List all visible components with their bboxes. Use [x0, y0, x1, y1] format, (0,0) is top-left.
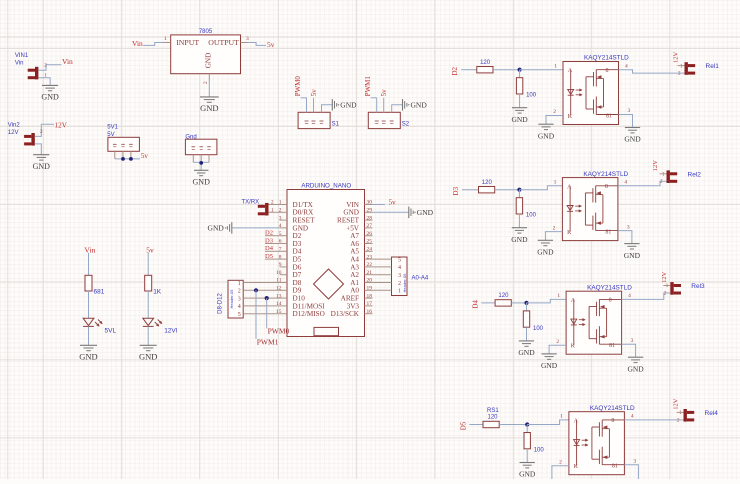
- svg-text:A: A: [574, 418, 579, 424]
- svg-text:81: 81: [612, 464, 618, 470]
- svg-text:D3: D3: [293, 240, 302, 248]
- svg-text:D10: D10: [293, 295, 306, 303]
- svg-text:A: A: [567, 184, 572, 190]
- junction at D9: [254, 288, 258, 292]
- wire 5v to S1 pin2: [313, 98, 315, 113]
- svg-text:120: 120: [480, 60, 491, 66]
- svg-text:3: 3: [633, 458, 636, 464]
- wire opto pin4 to relay connector Rel1: [619, 70, 685, 73]
- svg-text:12V: 12V: [673, 52, 680, 64]
- svg-text:2: 2: [664, 291, 667, 296]
- resistor 100 of block 4: [524, 425, 544, 454]
- svg-text:D6: D6: [293, 263, 302, 271]
- ground at opto pin3 block 1: [624, 128, 641, 144]
- svg-text:GND: GND: [519, 470, 536, 479]
- wire 5v to resistor 1K: [147, 253, 149, 275]
- svg-text:Header-05: Header-05: [402, 273, 407, 293]
- svg-text:Vin: Vin: [132, 39, 143, 48]
- junction block 3: [524, 301, 528, 305]
- servo header S2: [368, 112, 410, 128]
- svg-text:4: 4: [398, 265, 401, 271]
- svg-text:100: 100: [534, 448, 545, 454]
- svg-text:5: 5: [398, 257, 401, 263]
- svg-text:A7: A7: [350, 232, 359, 240]
- wire D9 to PWM1: [255, 290, 257, 339]
- net label D2 input of block 1: [451, 66, 459, 75]
- svg-text:8: 8: [611, 418, 614, 424]
- net label PWM0: [268, 326, 290, 335]
- wire S2 pin3 to ground: [392, 105, 402, 113]
- wire D5 to resistor 120: [469, 424, 483, 426]
- svg-text:1: 1: [398, 289, 401, 295]
- svg-text:5v: 5v: [146, 245, 154, 254]
- svg-text:120: 120: [482, 180, 493, 186]
- net label PWM0 at S1: [294, 76, 302, 97]
- svg-text:25: 25: [367, 239, 373, 245]
- net label Vin: [62, 57, 73, 66]
- header Gnd: [185, 134, 217, 154]
- wire opto pin4 to relay connector Rel4: [624, 419, 683, 421]
- net label 5v at S1: [310, 89, 318, 97]
- svg-text:Rel2: Rel2: [688, 171, 702, 178]
- svg-text:27: 27: [367, 223, 373, 229]
- junction on 5V1 pin2: [121, 157, 125, 161]
- ground S2: [403, 99, 428, 111]
- net label D3 at nano: [265, 237, 280, 244]
- svg-text:Vin: Vin: [84, 245, 95, 254]
- ground at opto pin3 block 2: [624, 244, 641, 260]
- svg-text:5: 5: [238, 312, 241, 318]
- wire Vin to 7805 input: [143, 43, 163, 46]
- svg-text:D13/SCK: D13/SCK: [331, 310, 360, 318]
- svg-text:Rel1: Rel1: [706, 63, 720, 70]
- svg-text:A5: A5: [350, 248, 359, 256]
- wire junction to opto pin1 block 2: [519, 186, 562, 190]
- svg-text:A2: A2: [350, 271, 359, 279]
- pin 2 of 7805: [203, 74, 210, 84]
- LED 12Vl: [143, 318, 178, 334]
- svg-text:81: 81: [605, 229, 611, 235]
- svg-text:PWM1: PWM1: [257, 337, 279, 346]
- wire 5V1 pins to 5v: [115, 158, 140, 160]
- wire opto pin4 to relay connector Rel3: [622, 293, 671, 299]
- net label PWM1: [257, 337, 279, 346]
- svg-text:K: K: [571, 344, 576, 350]
- svg-text:17: 17: [367, 301, 373, 307]
- svg-text:D1/TX: D1/TX: [293, 201, 314, 209]
- ground at opto pin2 block 1: [538, 124, 555, 140]
- svg-text:GND: GND: [627, 364, 644, 373]
- resistor 100 of block 2: [516, 190, 536, 219]
- svg-text:4: 4: [631, 414, 634, 420]
- pins of Gnd header: [193, 155, 209, 163]
- svg-text:5VL: 5VL: [105, 328, 117, 335]
- svg-text:2: 2: [553, 225, 556, 231]
- svg-text:RESET: RESET: [337, 217, 360, 225]
- svg-text:AREF: AREF: [341, 295, 359, 303]
- svg-text:GND: GND: [624, 251, 641, 260]
- svg-text:Gnd: Gnd: [185, 134, 196, 140]
- junction block 2: [517, 188, 521, 192]
- svg-text:GND: GND: [205, 53, 213, 69]
- wire S1 pin3 to ground: [322, 105, 332, 113]
- svg-text:VIN: VIN: [346, 201, 360, 209]
- wire resistor 120 to junction block 1: [493, 69, 520, 71]
- ground at opto pin3 block 3: [627, 357, 644, 373]
- regulator U 7805: [171, 29, 241, 73]
- svg-text:OUTPUT: OUTPUT: [208, 38, 239, 47]
- wire opto pin4 to relay connector Rel2: [618, 181, 667, 186]
- resistor 100 of block 1: [516, 70, 536, 99]
- svg-text:5v: 5v: [310, 89, 318, 97]
- resistor 681: [85, 275, 105, 295]
- svg-text:K: K: [574, 464, 579, 470]
- svg-text:D9: D9: [293, 287, 302, 295]
- svg-text:1: 1: [238, 281, 241, 287]
- svg-text:Rel3: Rel3: [691, 283, 705, 290]
- svg-text:3V3: 3V3: [347, 302, 360, 310]
- svg-text:21: 21: [367, 270, 373, 276]
- wire D10 to PWM0: [266, 298, 268, 328]
- svg-text:A: A: [568, 68, 573, 74]
- net label D4 at nano: [265, 245, 280, 252]
- svg-text:D8-D12: D8-D12: [218, 293, 224, 314]
- LED 5VL: [83, 318, 116, 334]
- svg-text:PWM0: PWM0: [268, 326, 290, 335]
- svg-text:1: 1: [662, 173, 665, 178]
- wire junction to opto pin1 block 4: [527, 420, 569, 425]
- svg-text:D4: D4: [293, 248, 302, 256]
- svg-text:5v: 5v: [389, 199, 397, 207]
- resistor 100 of block 3: [523, 303, 543, 332]
- svg-text:INPUT: INPUT: [176, 38, 199, 47]
- svg-text:ARDUINO_NANO: ARDUINO_NANO: [301, 182, 351, 189]
- wire opto pin3 to ground block 1: [619, 108, 633, 127]
- svg-text:GND: GND: [208, 224, 225, 233]
- servo header S1: [298, 112, 340, 128]
- svg-text:5v: 5v: [380, 89, 388, 97]
- svg-text:2: 2: [203, 81, 209, 84]
- wire PWM0 to S1 pin1: [301, 98, 307, 113]
- svg-text:16: 16: [367, 309, 373, 315]
- net label 5v at S2: [380, 89, 388, 97]
- ground 7805: [200, 97, 219, 113]
- svg-text:K: K: [568, 114, 573, 120]
- svg-text:A3: A3: [350, 263, 359, 271]
- svg-text:2: 2: [40, 130, 43, 135]
- ground right of nano: [409, 207, 434, 219]
- svg-text:23: 23: [367, 254, 373, 260]
- net label D2 at nano: [265, 230, 280, 237]
- net label Vin at LED chain 5VL: [84, 245, 95, 254]
- pin numbers Rel2: [660, 173, 667, 185]
- svg-text:12V: 12V: [672, 398, 679, 410]
- wire VIN1 pin1 to ground: [38, 74, 50, 86]
- svg-text:4: 4: [625, 63, 628, 69]
- resistor 120 of block 3: [495, 293, 511, 306]
- junction on 5V1 pin3: [129, 157, 133, 161]
- wire resistor 100 to ground block 2: [518, 214, 520, 228]
- svg-text:D2: D2: [293, 232, 302, 240]
- wire opto pin2 to ground block 1: [546, 109, 563, 124]
- svg-text:GND: GND: [511, 115, 528, 124]
- svg-text:1: 1: [279, 200, 282, 206]
- svg-text:10: 10: [276, 270, 282, 276]
- pin numbers Rel4: [677, 411, 684, 423]
- svg-text:GND: GND: [541, 361, 558, 370]
- svg-text:PWM0: PWM0: [294, 76, 302, 97]
- svg-text:1: 1: [164, 36, 167, 42]
- svg-text:19: 19: [367, 286, 373, 292]
- svg-text:1: 1: [679, 411, 682, 416]
- wire 7805 gnd pin down: [208, 81, 210, 97]
- pins of 5V1: [115, 151, 131, 159]
- svg-text:24: 24: [367, 247, 373, 253]
- resistor 120 of block 1: [477, 60, 493, 73]
- wire opto pin2 to ground block 4: [552, 459, 569, 479]
- svg-text:1: 1: [680, 64, 683, 69]
- pin 1 number block 3: [557, 293, 560, 299]
- wire opto pin2 to ground block 2: [545, 225, 562, 240]
- svg-text:1: 1: [557, 293, 560, 299]
- svg-text:8: 8: [605, 184, 608, 190]
- wire LED 5VL to ground: [88, 326, 90, 345]
- wire resistor 100 to ground block 4: [526, 449, 528, 463]
- connector Rel2: [667, 170, 702, 183]
- connector TX/RX: [242, 200, 269, 216]
- ground VIN1: [41, 85, 59, 101]
- junction block 4: [525, 422, 529, 426]
- wire resistor 100 to ground block 3: [526, 327, 528, 341]
- svg-text:1: 1: [666, 284, 669, 289]
- svg-text:2: 2: [677, 418, 680, 423]
- net label D5 at nano: [265, 253, 280, 260]
- net label 12V at Rel1: [673, 52, 680, 64]
- wire resistor to LED 12Vl: [147, 291, 149, 318]
- connector Rel4: [684, 409, 719, 422]
- svg-text:GND: GND: [139, 352, 157, 362]
- wire Gnd header pins joined: [193, 162, 209, 170]
- svg-text:12V: 12V: [661, 271, 668, 283]
- svg-text:5V: 5V: [107, 132, 114, 138]
- svg-text:GND: GND: [538, 131, 555, 140]
- pin 4 number block 1: [625, 63, 628, 69]
- svg-text:120: 120: [498, 293, 509, 299]
- svg-text:GND: GND: [79, 352, 97, 362]
- svg-text:GND: GND: [343, 209, 359, 217]
- optocoupler U KAQY214STLD block 2: [562, 171, 628, 241]
- connector VIN1: [15, 53, 39, 79]
- svg-text:2: 2: [44, 63, 47, 68]
- junction Gnd header: [199, 161, 203, 165]
- ic U ARDUINO_NANO: [287, 182, 365, 336]
- svg-text:7805: 7805: [199, 29, 213, 35]
- wire Vin2 pin2 to 12V label: [35, 124, 54, 136]
- wire Vin2 pin1 to ground: [35, 144, 42, 155]
- wire Vin to resistor 681: [88, 253, 90, 275]
- ground LED 5VL: [79, 345, 97, 361]
- svg-text:TX/RX: TX/RX: [242, 200, 260, 206]
- svg-text:3: 3: [627, 224, 630, 230]
- wire D4 to resistor 120: [481, 302, 495, 304]
- svg-text:KAQY214STLD: KAQY214STLD: [587, 284, 632, 291]
- svg-text:5v: 5v: [267, 40, 275, 49]
- svg-text:2: 2: [556, 339, 559, 345]
- svg-text:2: 2: [238, 289, 241, 295]
- svg-text:2: 2: [398, 281, 401, 287]
- optocoupler U KAQY214STLD block 4: [569, 405, 635, 475]
- svg-text:2: 2: [279, 208, 282, 214]
- wire opto pin3 to ground block 3: [622, 338, 636, 357]
- header 5V1: [107, 125, 139, 152]
- net label 5v at nano VIN: [373, 199, 397, 207]
- svg-text:28: 28: [367, 215, 373, 221]
- wire resistor 120 to junction block 4: [499, 424, 527, 426]
- pin 1 of 7805: [163, 36, 171, 43]
- svg-text:Rel4: Rel4: [705, 410, 719, 417]
- wire 5v to S2 pin2: [383, 98, 385, 113]
- svg-text:GND: GND: [624, 135, 641, 144]
- svg-text:A4: A4: [350, 256, 359, 264]
- svg-text:GND: GND: [293, 224, 309, 232]
- svg-text:GND: GND: [200, 103, 218, 113]
- connector Rel3: [670, 282, 705, 295]
- wire VIN1 pin2 to Vin label: [38, 63, 61, 70]
- pin numbers Rel3: [663, 284, 670, 296]
- svg-text:K: K: [567, 230, 572, 236]
- svg-text:GND: GND: [41, 93, 59, 102]
- svg-text:D2: D2: [451, 66, 459, 75]
- svg-text:81: 81: [609, 343, 615, 349]
- junction block 1: [518, 68, 522, 72]
- svg-text:18: 18: [367, 293, 373, 299]
- wires A0-A4 to nano: [373, 259, 392, 290]
- pin numbers Rel1: [678, 64, 685, 76]
- ground S1: [332, 99, 357, 111]
- svg-text:Header-05: Header-05: [229, 289, 234, 309]
- svg-text:KAQY214STLD: KAQY214STLD: [584, 55, 629, 62]
- svg-text:GND: GND: [193, 178, 211, 187]
- svg-text:3: 3: [631, 338, 634, 344]
- wire junction to opto pin1 block 3: [527, 299, 567, 303]
- svg-text:Vin2: Vin2: [8, 123, 21, 129]
- wire opto pin3 to ground block 2: [618, 224, 632, 243]
- wire resistor to LED 5VL: [88, 291, 90, 318]
- svg-text:GND: GND: [33, 162, 51, 171]
- pin 4 number block 3: [628, 293, 631, 299]
- svg-text:KAQY214STLD: KAQY214STLD: [583, 171, 628, 178]
- svg-text:100: 100: [526, 93, 537, 99]
- svg-text:A6: A6: [350, 240, 359, 248]
- net label 12V: [55, 121, 68, 129]
- svg-text:D5: D5: [459, 421, 467, 430]
- svg-text:GND: GND: [417, 208, 434, 217]
- pin 3 of 7805: [241, 36, 250, 43]
- net label 5v at LED chain 12Vl: [146, 245, 154, 254]
- svg-text:3: 3: [279, 215, 282, 221]
- resistor RS1 120: [483, 408, 499, 427]
- svg-text:PWM1: PWM1: [364, 76, 372, 97]
- pins right of ARDUINO_NANO: [365, 200, 373, 315]
- svg-text:S1: S1: [332, 121, 340, 127]
- wire opto pin3 to ground block 4: [624, 458, 638, 479]
- svg-text:12V: 12V: [55, 121, 68, 129]
- svg-text:2: 2: [678, 72, 681, 77]
- svg-text:9: 9: [279, 262, 282, 268]
- svg-text:22: 22: [367, 262, 373, 268]
- wire D3 to resistor 120: [462, 189, 479, 191]
- svg-text:12V: 12V: [8, 130, 19, 136]
- wire resistor 120 to junction block 3: [511, 302, 526, 304]
- svg-text:1: 1: [560, 414, 563, 420]
- connector D8-D12: [218, 280, 244, 318]
- svg-text:GND: GND: [518, 348, 535, 357]
- svg-text:3: 3: [628, 108, 631, 114]
- svg-text:GND: GND: [340, 100, 357, 109]
- svg-text:GND: GND: [511, 235, 528, 244]
- resistor 1K: [145, 275, 162, 295]
- pin 4 number block 2: [624, 180, 627, 186]
- junction at D10: [265, 296, 269, 300]
- wire resistor 100 to ground block 1: [519, 94, 521, 108]
- svg-text:26: 26: [367, 231, 373, 237]
- svg-text:D0/RX: D0/RX: [293, 209, 315, 217]
- wire resistor 120 to junction block 2: [495, 189, 520, 191]
- pins left of ARDUINO_NANO: [269, 200, 288, 315]
- net label D4 input of block 3: [471, 300, 479, 309]
- svg-text:81: 81: [606, 113, 612, 119]
- ground of Gnd header: [193, 170, 211, 186]
- ground under resistor 100 block 1: [511, 108, 528, 124]
- svg-text:D4: D4: [471, 300, 479, 309]
- svg-text:A0: A0: [350, 287, 359, 295]
- net label 12V at Rel2: [652, 160, 659, 172]
- svg-text:8: 8: [609, 298, 612, 304]
- svg-text:VIN1: VIN1: [15, 53, 29, 59]
- connector Rel1: [685, 62, 720, 75]
- svg-text:GND: GND: [537, 248, 554, 257]
- svg-text:4: 4: [628, 293, 631, 299]
- svg-text:3: 3: [246, 36, 249, 42]
- svg-text:S2: S2: [402, 121, 410, 127]
- optocoupler U KAQY214STLD block 3: [566, 284, 632, 354]
- svg-text:4: 4: [624, 180, 627, 186]
- net label D5 input of block 4: [459, 421, 467, 430]
- svg-text:5V1: 5V1: [107, 125, 118, 131]
- connector A0-A4: [392, 257, 429, 296]
- wire nano GND pin29 to ground: [373, 211, 409, 213]
- svg-text:100: 100: [533, 326, 544, 332]
- net label D3 input of block 2: [452, 186, 460, 195]
- net label 5v at 5V1: [141, 152, 149, 160]
- svg-text:1K: 1K: [153, 289, 162, 296]
- svg-text:20: 20: [367, 278, 373, 284]
- svg-text:D3: D3: [452, 186, 460, 195]
- svg-text:12Vl: 12Vl: [164, 328, 178, 335]
- svg-text:681: 681: [94, 289, 105, 296]
- svg-text:KAQY214STLD: KAQY214STLD: [590, 405, 635, 412]
- svg-text:RESET: RESET: [293, 217, 316, 225]
- ground at opto pin2 block 3: [541, 354, 558, 370]
- ground at nano pin4: [232, 227, 279, 229]
- ground LED 12Vl: [139, 345, 157, 361]
- svg-text:D5: D5: [293, 256, 302, 264]
- pin 1 number block 4: [560, 414, 563, 420]
- svg-text:RS1: RS1: [487, 408, 499, 414]
- svg-text:A1: A1: [350, 279, 359, 287]
- svg-text:2: 2: [553, 109, 556, 115]
- ground under resistor 100 block 3: [518, 341, 535, 357]
